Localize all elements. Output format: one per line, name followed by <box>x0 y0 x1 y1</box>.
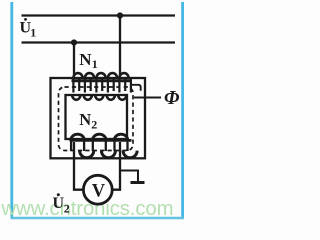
secondary winding N2 <box>70 134 138 158</box>
node on L1 <box>117 12 123 18</box>
winding tail / flux corner elbow <box>131 85 141 91</box>
wire from L2 down to primary N1 <box>73 43 75 77</box>
flux pointer line <box>134 97 161 99</box>
svg-text:Φ: Φ <box>164 88 180 109</box>
wire N2 left lead down to voltmeter <box>74 142 84 190</box>
svg-text:N: N <box>79 110 91 129</box>
voltmeter V <box>83 175 112 204</box>
decorative cyan frame (left, right, bottom) <box>10 2 13 219</box>
wire from L1 down to primary N1 <box>119 16 121 77</box>
label U2 (with dot above) <box>53 193 70 215</box>
bus line L1 <box>22 14 176 16</box>
ground <box>120 171 145 183</box>
svg-text:1: 1 <box>30 25 36 39</box>
label U1 (with dot above) <box>20 18 37 39</box>
bus line L2 <box>22 41 176 43</box>
svg-text:U: U <box>53 195 65 212</box>
label N2 <box>79 110 97 131</box>
svg-text:1: 1 <box>92 57 98 71</box>
label N1 <box>79 50 98 71</box>
flux path (dashed) <box>59 87 134 151</box>
svg-text:2: 2 <box>91 117 97 131</box>
svg-text:2: 2 <box>64 201 70 215</box>
wire N2 right lead down to voltmeter <box>112 142 120 190</box>
svg-text:N: N <box>79 50 92 69</box>
svg-text:www.cntronics.com: www.cntronics.com <box>1 198 174 220</box>
transformer core (outer and inner outline) <box>51 78 146 158</box>
svg-text:V: V <box>92 182 106 202</box>
primary winding N1 <box>72 73 132 100</box>
node on L2 <box>71 39 77 45</box>
